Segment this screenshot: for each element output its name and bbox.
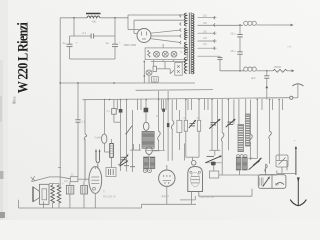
svg-text:0,1: 0,1	[83, 31, 87, 35]
svg-text:A F 7: A F 7	[162, 195, 170, 199]
svg-text:25 µ: 25 µ	[231, 33, 236, 36]
svg-text:P.: P.	[181, 51, 183, 54]
svg-text:Nora: Nora	[13, 96, 17, 105]
svg-text:RES 917W: RES 917W	[200, 195, 215, 199]
svg-text:+: +	[76, 40, 78, 44]
svg-text:15000: 15000	[274, 65, 282, 69]
svg-text:4µ: 4µ	[63, 41, 67, 45]
svg-text:W 220 L Rienzi: W 220 L Rienzi	[14, 22, 31, 93]
svg-text:GwW: GwW	[95, 135, 102, 139]
svg-text:4µ: 4µ	[106, 41, 110, 45]
svg-text:4µF: 4µF	[251, 76, 256, 80]
svg-text:40Ω: 40Ω	[92, 20, 97, 24]
svg-text:+: +	[119, 40, 121, 44]
svg-text:V: V	[156, 114, 158, 118]
svg-text:25 µ: 25 µ	[231, 50, 236, 53]
svg-text:mA: mA	[288, 45, 292, 49]
svg-text:780 U/52: 780 U/52	[124, 43, 137, 47]
svg-text:RE 084 W: RE 084 W	[103, 195, 116, 199]
svg-text:4µF,: 4µF,	[64, 181, 69, 183]
